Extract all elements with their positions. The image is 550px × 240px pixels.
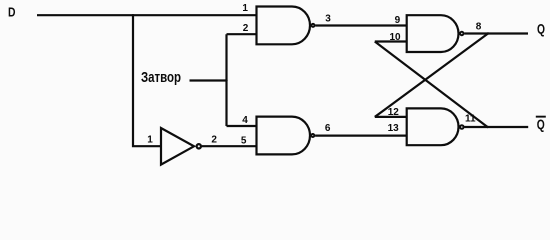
wire: Q output from U3 pin 8	[464, 32, 528, 34]
wire: U3 pin 10 input stub	[375, 40, 408, 42]
svg-text:Затвор: Затвор	[141, 69, 181, 86]
wire: riser to U2 pin 4	[227, 125, 257, 127]
svg-text:1: 1	[242, 3, 248, 14]
nand gate U2 output bubble (pin 6)	[311, 134, 314, 137]
svg-text:13: 13	[388, 123, 400, 134]
svg-text:1: 1	[147, 134, 153, 145]
svg-text:12: 12	[388, 107, 400, 118]
svg-text:2: 2	[243, 23, 249, 34]
wire: D branch down and across to inverter U5 input	[133, 15, 161, 146]
svg-text:Q: Q	[537, 117, 545, 132]
junction: enable riser tee	[225, 79, 227, 81]
svg-text:5: 5	[241, 135, 247, 146]
svg-text:4: 4	[242, 115, 248, 126]
wire: D input trunk to U1 pin 1	[37, 14, 257, 16]
wire: feedback diagonal Q node to U4 pin 12	[375, 34, 488, 117]
svg-text:3: 3	[325, 14, 331, 25]
wire: riser to U1 pin 2	[227, 33, 257, 35]
nand gate U4 body	[407, 108, 459, 145]
svg-text:10: 10	[389, 32, 401, 43]
wire: Zatvor (enable) stub to riser	[190, 79, 227, 81]
nand gate U1 output bubble (pin 3)	[312, 24, 315, 27]
svg-text:9: 9	[395, 15, 401, 26]
wire: U1 pin 3 output to U3 pin 9	[315, 24, 407, 26]
svg-text:11: 11	[465, 114, 476, 125]
junction: D branch tee	[132, 14, 134, 16]
nand gate U1 body	[257, 7, 310, 45]
wire: U2 pin 6 output to U4 pin 13	[315, 135, 408, 137]
nand gate U4 output bubble (pin 11)	[460, 125, 464, 129]
nand gate U3 output bubble (pin 8)	[460, 32, 463, 35]
wire: U4 pin 12 input stub	[375, 116, 408, 118]
svg-text:8: 8	[476, 22, 482, 33]
nand gate U3 body	[407, 15, 459, 52]
nand gate U2 body	[257, 117, 310, 155]
wire: feedback diagonal Q-bar node to U3 pin 10	[375, 42, 488, 128]
svg-text:Q: Q	[537, 21, 545, 36]
inverter U5 triangle	[161, 128, 194, 165]
junction: Q feedback node	[487, 32, 489, 34]
overline of Q-bar	[536, 116, 546, 118]
svg-text:6: 6	[325, 123, 331, 134]
wire: Q-bar output from U4 pin 11	[464, 126, 528, 128]
junction: Q-bar feedback node	[486, 126, 488, 128]
wire: enable riser vertical	[225, 34, 227, 126]
wire: U5 output to U2 pin 5	[202, 145, 257, 147]
svg-text:2: 2	[211, 135, 217, 146]
svg-text:D: D	[8, 5, 16, 20]
inverter U5 output bubble	[197, 144, 201, 148]
